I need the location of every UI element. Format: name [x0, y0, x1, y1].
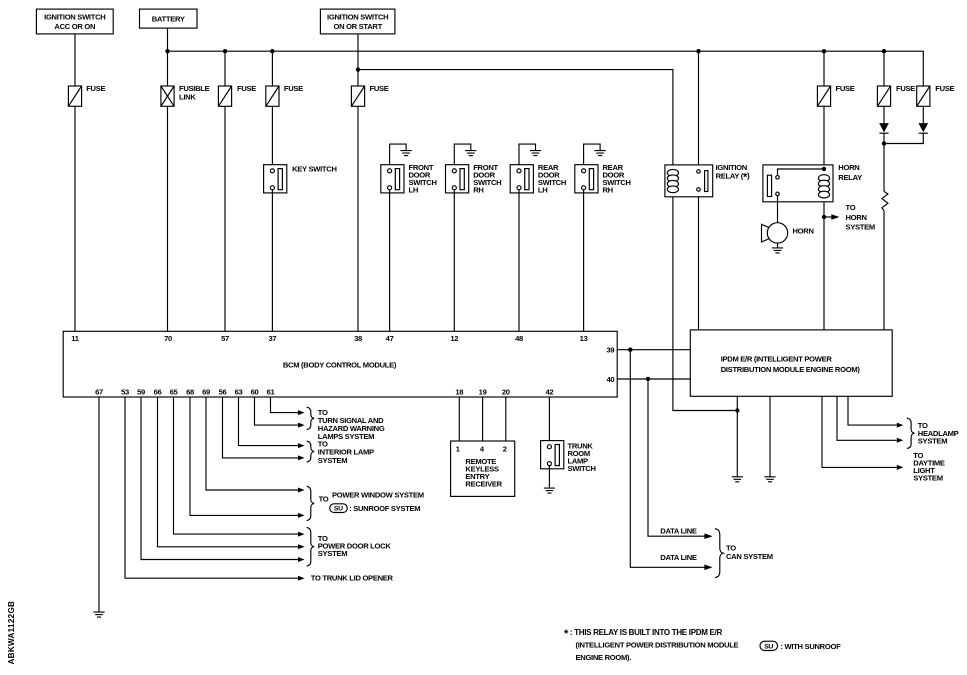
wire: pin 53 to trunk lid opener arrow — [125, 397, 305, 581]
brace: power door lock group — [307, 527, 315, 566]
wire: rear door switch RH to BCM pin 13 — [583, 189, 585, 331]
brace: CAN system — [715, 529, 723, 578]
wire: pin 59 to door lock arrow — [141, 397, 305, 562]
svg-text:12: 12 — [450, 334, 458, 343]
svg-text:SYSTEM: SYSTEM — [918, 436, 947, 445]
svg-text:FUSE: FUSE — [896, 84, 915, 93]
svg-text:37: 37 — [268, 334, 276, 343]
rear door switch RH — [575, 144, 631, 194]
svg-text:53: 53 — [121, 387, 129, 396]
svg-text:SU: SU — [334, 506, 343, 513]
node: coil-return junction — [735, 408, 739, 412]
wire: horn relay coil to IPDM — [823, 198, 825, 331]
svg-text:FUSE: FUSE — [836, 84, 855, 93]
svg-text:HORN: HORN — [846, 213, 867, 222]
fuse F3 (key switch circuit) — [266, 84, 303, 107]
horn relay U2 — [763, 163, 862, 202]
svg-text:LINK: LINK — [179, 92, 196, 101]
fuse F7 (headlamp) — [917, 84, 955, 107]
svg-text:TO: TO — [319, 495, 329, 504]
svg-text:68: 68 — [186, 387, 194, 396]
wire: ignition relay contact to IPDM — [698, 191, 700, 330]
svg-text:FUSE: FUSE — [86, 84, 105, 93]
fuse F4 (pin 38 circuit) — [351, 84, 388, 107]
svg-text:RH: RH — [473, 185, 483, 194]
wire: BCM pin 67 to ground — [98, 397, 100, 612]
horn — [762, 223, 814, 243]
svg-text:63: 63 — [235, 387, 243, 396]
wire: battery feed down to BCM pin 70 — [167, 28, 169, 331]
wire: bus to headlamp fuse — [883, 51, 885, 87]
svg-text:11: 11 — [71, 334, 80, 343]
wire: resistor to IPDM — [883, 211, 885, 330]
svg-text:60: 60 — [251, 387, 259, 396]
wire: data line 2 (pin 39) — [630, 350, 712, 570]
svg-text:SU: SU — [764, 644, 773, 651]
node: pin 39 data tap — [628, 348, 632, 352]
svg-text:39: 39 — [606, 346, 614, 355]
wire: BCM pin 40 to IPDM — [617, 378, 690, 380]
label: TO CAN SYSTEM — [726, 544, 773, 561]
key switch — [264, 164, 337, 193]
footnote: relay note — [564, 628, 739, 662]
svg-text:BATTERY: BATTERY — [152, 15, 185, 24]
front door switch RH — [446, 144, 502, 194]
svg-text:IPDM E/R (INTELLIGENT POWER: IPDM E/R (INTELLIGENT POWER — [721, 354, 833, 363]
resistor R1 — [882, 191, 888, 210]
brace: power window group — [307, 486, 315, 520]
node: junction bus/headlamp fuse — [882, 49, 886, 53]
ignition relay U1 — [665, 163, 750, 197]
svg-text:FUSE: FUSE — [284, 84, 303, 93]
svg-text:SYSTEM: SYSTEM — [913, 474, 942, 483]
footnote: SU with sunroof — [760, 641, 841, 651]
power source box: IGNITION SWITCH ON OR START — [320, 9, 395, 34]
wire: pin 56 to interior lamp arrow — [223, 397, 305, 460]
fuse F5 (horn relay) — [817, 84, 854, 107]
wire: pin 60 to turn signal arrow — [255, 397, 305, 428]
node: junction bus/ignition relay — [696, 49, 700, 53]
wire: BCM pin 19 to receiver — [482, 397, 484, 441]
wire: pin 68 to sunroof arrow — [190, 397, 305, 518]
wire: ignition relay coil to below-IPDM junction — [673, 197, 737, 411]
wire: bus to BCM pin 57 — [224, 51, 226, 331]
power source box: BATTERY — [140, 9, 198, 28]
IPDM E/R box — [690, 330, 892, 396]
svg-text:67: 67 — [95, 387, 103, 396]
node: junction battery/bus — [165, 49, 169, 53]
svg-text:ON OR START: ON OR START — [333, 22, 382, 31]
svg-text:POWER WINDOW SYSTEM: POWER WINDOW SYSTEM — [332, 490, 424, 499]
node: junction ign-on-start branch — [356, 67, 360, 71]
svg-text:ENGINE ROOM).: ENGINE ROOM). — [576, 653, 632, 662]
BCM (body control module) box — [63, 331, 617, 397]
wire: bus to key switch — [271, 51, 273, 168]
wire: BCM pin 39 to IPDM — [617, 349, 690, 351]
diode D2 — [919, 123, 929, 133]
svg-text:FUSE: FUSE — [935, 84, 954, 93]
svg-text:DATA LINE: DATA LINE — [660, 553, 697, 562]
wire: trunk switch to ground — [548, 465, 550, 488]
svg-text:: WITH SUNROOF: : WITH SUNROOF — [781, 642, 842, 651]
trunk room lamp switch — [541, 441, 596, 474]
wire: fuse to horn relay coil — [823, 106, 825, 176]
svg-text:18: 18 — [455, 387, 463, 396]
svg-text:LH: LH — [538, 185, 548, 194]
svg-text:(INTELLIGENT POWER DISTRIBUTIO: (INTELLIGENT POWER DISTRIBUTION MODULE — [576, 641, 739, 650]
wire: battery bus — [168, 51, 924, 87]
wire: to headlamp system 2 — [837, 396, 903, 443]
wire: diode D1 to resistor — [883, 133, 885, 191]
svg-text:56: 56 — [219, 387, 227, 396]
svg-text:RECEIVER: RECEIVER — [465, 480, 502, 489]
svg-text:RELAY: RELAY — [838, 173, 862, 182]
label: TO POWER DOOR LOCK SYSTEM — [318, 534, 392, 558]
svg-text:FUSE: FUSE — [237, 84, 256, 93]
brace: headlamp system — [907, 418, 915, 448]
node: junction bus/fuse57 — [223, 49, 227, 53]
svg-text:13: 13 — [580, 334, 588, 343]
wire: to headlamp system 1 — [848, 396, 903, 427]
svg-text:TO TRUNK LID OPENER: TO TRUNK LID OPENER — [311, 573, 394, 582]
svg-text:65: 65 — [170, 387, 179, 396]
wire: to daytime light system — [822, 396, 903, 470]
svg-text:IGNITION SWITCH: IGNITION SWITCH — [44, 13, 105, 22]
svg-text:69: 69 — [202, 387, 210, 396]
wire: pin 63 to interior lamp arrow — [239, 397, 305, 448]
label: TO HEADLAMP SYSTEM — [918, 421, 959, 445]
wire: diode D2 joins diode D1 line — [884, 133, 923, 143]
wire: pin 65 to door lock arrow — [174, 397, 305, 537]
wire: ign on/start feed to BCM pin 38 — [357, 34, 359, 331]
wire: pin 69 to power window arrow — [206, 397, 305, 493]
svg-text:20: 20 — [502, 387, 510, 396]
svg-text:SYSTEM: SYSTEM — [318, 549, 347, 558]
wire: pin 66 to door lock arrow — [158, 397, 305, 549]
svg-text:TO: TO — [846, 203, 856, 212]
wire: branch to ignition relay coil — [358, 70, 673, 165]
svg-text:70: 70 — [164, 334, 172, 343]
wire: rear door switch LH to BCM pin 48 — [518, 189, 520, 331]
wire: BCM pin 20 to receiver — [505, 397, 507, 441]
brace: turn signal group — [307, 407, 315, 430]
wire: BCM pin 18 to receiver — [458, 397, 460, 441]
svg-text:59: 59 — [137, 387, 145, 396]
node: junction bus/horn relay fuse — [822, 49, 826, 53]
diode D1 — [879, 123, 889, 133]
node: horn system tap — [822, 215, 826, 219]
wire: fuse F7 to diode D2 — [922, 106, 924, 123]
front door switch LH — [381, 144, 437, 194]
label: TO DAYTIME LIGHT SYSTEM — [913, 451, 945, 483]
svg-text:48: 48 — [515, 334, 523, 343]
node: pin 40 data tap — [646, 377, 650, 381]
wire: horn to ground — [777, 243, 779, 248]
svg-text:HORN: HORN — [793, 227, 814, 236]
svg-text:19: 19 — [479, 387, 487, 396]
brace: interior lamp group — [307, 441, 315, 462]
svg-text:61: 61 — [267, 387, 276, 396]
node: junction bus/fuse37 — [270, 49, 274, 53]
wire: front door switch RH to BCM pin 12 — [453, 189, 455, 331]
svg-text:RH: RH — [603, 185, 613, 194]
label: TO INTERIOR LAMP SYSTEM — [318, 440, 374, 465]
svg-text:CAN SYSTEM: CAN SYSTEM — [726, 552, 773, 561]
power source box: IGNITION SWITCH ACC OR ON — [36, 9, 113, 34]
svg-text:ACC OR ON: ACC OR ON — [54, 22, 95, 31]
wire: arrow to horn system — [824, 203, 875, 231]
svg-text:KEY SWITCH: KEY SWITCH — [292, 164, 337, 173]
wire: key switch to BCM pin 37 — [271, 189, 273, 331]
svg-text:HORN: HORN — [838, 163, 859, 172]
wire: horn relay to horn — [777, 196, 779, 224]
svg-text:* : THIS RELAY IS BUILT INTO T: * : THIS RELAY IS BUILT INTO THE IPDM E/… — [564, 628, 722, 640]
svg-text:SYSTEM: SYSTEM — [318, 456, 347, 465]
ground: IPDM 1 — [732, 477, 743, 482]
wire: bus to ignition relay contact — [698, 51, 700, 170]
label: TO POWER WINDOW SYSTEM / SUNROOF SYSTEM — [319, 490, 424, 513]
wire: BCM pin 42 to trunk switch — [548, 397, 550, 444]
svg-text:47: 47 — [386, 334, 394, 343]
ground: trunk switch — [544, 488, 555, 493]
wire: pin 61 to turn signal arrow — [271, 397, 305, 415]
wire: front door switch LH to BCM pin 47 — [389, 189, 391, 331]
svg-text:RELAY (*): RELAY (*) — [716, 171, 750, 183]
fusible link (pin 70 circuit) — [161, 84, 210, 107]
svg-text:SWITCH: SWITCH — [568, 464, 596, 473]
svg-text:DISTRIBUTION MODULE ENGINE ROO: DISTRIBUTION MODULE ENGINE ROOM) — [721, 365, 861, 374]
svg-text:2: 2 — [503, 445, 507, 454]
ground: horn — [772, 248, 783, 253]
wire: data line 1 (pin 40) — [648, 379, 713, 539]
wire: IPDM ground 2 — [769, 396, 771, 477]
ground: BCM pin 67 — [93, 612, 104, 617]
svg-text:38: 38 — [354, 334, 362, 343]
svg-text:: SUNROOF SYSTEM: : SUNROOF SYSTEM — [349, 504, 420, 513]
svg-text:66: 66 — [154, 387, 162, 396]
svg-text:42: 42 — [545, 387, 553, 396]
remote keyless entry receiver — [451, 441, 515, 496]
svg-text:DATA LINE: DATA LINE — [660, 526, 697, 535]
ground: IPDM 2 — [764, 477, 775, 482]
fuse F1 (pin 11 circuit) — [68, 84, 105, 107]
wire: bus to horn relay fuse — [823, 51, 825, 87]
wire: ign acc feed to fuse and BCM pin 11 — [74, 34, 76, 331]
rear door switch LH — [510, 144, 566, 194]
svg-text:LH: LH — [409, 185, 419, 194]
svg-text:57: 57 — [221, 334, 229, 343]
svg-text:IGNITION SWITCH: IGNITION SWITCH — [327, 13, 388, 22]
fuse F2 (pin 57 circuit) — [218, 84, 256, 107]
svg-text:BCM (BODY CONTROL MODULE): BCM (BODY CONTROL MODULE) — [283, 360, 397, 369]
fuse F6 (headlamp) — [877, 84, 915, 107]
svg-text:SYSTEM: SYSTEM — [846, 222, 875, 231]
wire: IPDM ground 1 — [736, 396, 738, 477]
svg-text:FUSE: FUSE — [370, 84, 389, 93]
svg-text:40: 40 — [606, 375, 614, 384]
label: TO TURN SIGNAL AND HAZARD WARNING LAMPS SYSTEM — [318, 408, 385, 441]
svg-text:ABKWA1122GB: ABKWA1122GB — [7, 601, 16, 665]
wire: fuse F6 to diode D1 — [883, 106, 885, 123]
node: diode join — [882, 141, 886, 145]
